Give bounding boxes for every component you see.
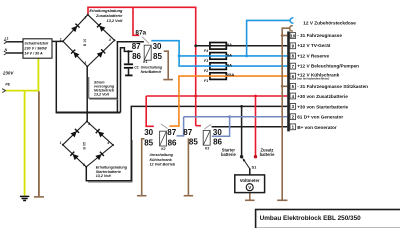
label pin10 (297, 33, 342, 38)
svg-text:K1: K1 (143, 60, 147, 64)
junction socket blue riser (245, 55, 248, 58)
junction C1 tap (127, 50, 130, 53)
capacitor C1 label (134, 65, 163, 74)
svg-text:61 D+ von Generator: 61 D+ von Generator (297, 115, 343, 120)
diode D2a (71, 129, 79, 137)
title box (256, 210, 400, 229)
svg-text:F4: F4 (204, 49, 208, 53)
svg-text:4: 4 (106, 141, 109, 145)
label pin7 (297, 64, 359, 69)
wire blue socket riser (247, 18, 294, 56)
node S1 starter terminal (240, 155, 243, 158)
svg-text:1: 1 (60, 37, 62, 41)
label Starter batterie (221, 148, 237, 157)
fuse F3 (210, 53, 226, 60)
svg-text:30: 30 (213, 128, 222, 137)
node 3 label lower (83, 163, 85, 167)
terminal L1 label (5, 37, 9, 41)
label 12V Zubehoersteckdose (303, 21, 356, 26)
ground earth symbol (20, 196, 29, 200)
connector pin 7 (290, 63, 296, 69)
wire bridge stem (86, 66, 88, 121)
svg-text:2: 2 (83, 16, 86, 20)
svg-text:86: 86 (213, 137, 222, 146)
svg-text:F1: F1 (204, 79, 208, 83)
label pin4 (297, 94, 348, 99)
svg-text:PE: PE (5, 83, 10, 87)
svg-text:Umschaltung: Umschaltung (141, 65, 163, 69)
svg-text:+30 von Zusatzbatterie: +30 von Zusatzbatterie (297, 94, 348, 99)
svg-text:12 V Zubehörsteckdose: 12 V Zubehörsteckdose (303, 21, 356, 26)
wire PE yellow (2, 58, 38, 195)
svg-text:S1: S1 (252, 164, 258, 169)
wire brown K3 85 ground (184, 138, 193, 195)
junction red S1 branch (254, 95, 257, 98)
diode D1a (71, 24, 79, 32)
svg-text:+30 von Starterbatterie: +30 von Starterbatterie (297, 104, 348, 109)
wire N input (4, 51, 23, 55)
wire pin1 row B+ generator (212, 126, 288, 128)
node 2 label (83, 16, 86, 20)
wire voltmeter ground (245, 193, 255, 201)
label pin9 (297, 43, 331, 48)
svg-text:14 V / 30 A: 14 V / 30 A (24, 51, 43, 55)
diode D2d (95, 152, 103, 160)
fuse F2 label (204, 63, 232, 74)
connector pin 5 (290, 83, 296, 89)
svg-text:Schaltnetzteil: Schaltnetzteil (24, 41, 49, 45)
wire D+ row pin2 (177, 117, 288, 137)
label pin3 (297, 104, 348, 109)
wire brown socket ground (277, 26, 293, 201)
connector pin 8 (290, 53, 296, 59)
svg-text:F2: F2 (204, 69, 208, 73)
connector pin 1 (290, 124, 296, 130)
svg-text:- 31 Fahrzeugmasse Stitzkasten: - 31 Fahrzeugmasse Stitzkasten (297, 84, 368, 89)
wire blue K1 30 to fuses (151, 41, 287, 66)
connector block bar (287, 31, 290, 131)
node S1 zusatz terminal (254, 155, 257, 158)
svg-text:8A: 8A (227, 63, 232, 68)
svg-text:230V: 230V (2, 71, 14, 76)
bridge D2 type label (82, 142, 86, 149)
label Zusatz batterie (260, 148, 276, 157)
svg-text:K3: K3 (205, 147, 209, 151)
wire S1 starter drop (241, 106, 243, 155)
svg-text:30: 30 (144, 128, 153, 137)
diode D1d (97, 49, 105, 57)
voltmeter box (235, 175, 265, 193)
wire red pin4 row Zusatzbatterie (146, 95, 287, 97)
svg-text:4: 4 (108, 38, 111, 42)
svg-text:+12 V Beleuchtung/Pumpen: +12 V Beleuchtung/Pumpen (297, 64, 359, 69)
svg-text:85: 85 (153, 52, 162, 61)
svg-text:Umbau Elektroblock EBL 250/350: Umbau Elektroblock EBL 250/350 (260, 215, 362, 222)
wire K1 87 feed (117, 42, 143, 113)
svg-text:B 10: B 10 (83, 39, 87, 46)
svg-text:85: 85 (189, 137, 198, 146)
connector pin 4 (290, 93, 296, 99)
svg-text:3: 3 (83, 163, 85, 167)
wire red main charge line (88, 7, 201, 125)
svg-text:1: 1 (60, 141, 62, 145)
wire supply bus (56, 112, 121, 114)
diode D1c (71, 50, 79, 58)
junction bus bridge stem (86, 111, 89, 114)
svg-text:12 Volt Betrieb: 12 Volt Betrieb (150, 163, 176, 167)
svg-text:87: 87 (167, 128, 176, 137)
label pin5 (297, 84, 368, 89)
wire pin3 row starter battery (86, 106, 287, 182)
wire brown K1 85 ground (163, 51, 173, 79)
diode D2b (96, 129, 104, 137)
svg-text:+12 V Reserve: +12 V Reserve (297, 53, 329, 58)
wire red S1 drop (255, 96, 257, 156)
svg-text:3: 3 (84, 61, 86, 65)
svg-text:86: 86 (168, 139, 177, 148)
svg-text:85: 85 (144, 139, 153, 148)
svg-text:Kühlschrank: Kühlschrank (150, 158, 173, 162)
connector pin 6 (290, 73, 296, 79)
junction red row crossing (194, 95, 197, 98)
node 1 label lower (60, 141, 62, 145)
wire L1 input (4, 40, 23, 44)
fuse F3 label (204, 52, 232, 63)
diode D1b (97, 23, 105, 31)
rectifier bridge D1 outline (62, 14, 116, 68)
wire brown K2 85 ground (137, 139, 146, 196)
fuse F1 label (204, 72, 234, 83)
wire orange F1 row (169, 76, 287, 126)
label box Strom versorgung Netzbetrieb (89, 77, 119, 100)
connector pin 2 (290, 114, 296, 120)
wire PSU to bridge node 1 (52, 40, 63, 42)
svg-text:13,2 Volt: 13,2 Volt (96, 174, 112, 178)
svg-text:K2: K2 (161, 147, 165, 151)
svg-text:batterie: batterie (221, 152, 237, 157)
230V label (2, 71, 14, 76)
capacitor C1 (124, 51, 133, 75)
wire red K2 30 drop (146, 96, 154, 126)
svg-text:V: V (248, 185, 251, 190)
node 2 label lower (87, 122, 90, 126)
svg-text:C1: C1 (134, 65, 139, 69)
wire fuse row F4 pin9 (196, 45, 288, 47)
junction F3 blue branch (178, 55, 181, 58)
wire K1 86 feed (121, 48, 133, 113)
switch S1 (243, 158, 250, 175)
svg-text:- 31 Fahrzeugmasse: - 31 Fahrzeugmasse (297, 33, 342, 38)
junction D+ K3 coil branch (228, 115, 231, 118)
bridge D1 type label (83, 39, 87, 46)
svg-text:+12 V TV-Gerät: +12 V TV-Gerät (297, 43, 331, 48)
power supply box (23, 39, 52, 58)
fuse F4 label (204, 42, 232, 53)
K2 function label (150, 153, 176, 166)
svg-text:Umschaltung: Umschaltung (150, 153, 174, 157)
svg-text:10: 10 (290, 33, 295, 38)
svg-text:8A: 8A (227, 42, 232, 47)
svg-text:87: 87 (183, 128, 192, 137)
svg-text:87: 87 (132, 42, 141, 51)
label Erhaltungsladung Starterbatterie (96, 166, 128, 178)
relay K1 (132, 30, 163, 65)
connector pin 3 (290, 104, 296, 110)
svg-text:30: 30 (153, 42, 162, 51)
connector pin 10 (290, 33, 296, 39)
svg-text:batterie: batterie (260, 152, 276, 157)
junction F4 red feed (194, 44, 197, 47)
node 3 label (84, 61, 86, 65)
svg-text:Voltmeter: Voltmeter (240, 178, 260, 183)
rectifier bridge D2 outline (62, 120, 114, 167)
diode D2c (70, 152, 78, 160)
svg-text:230 V / 360W: 230 V / 360W (23, 46, 47, 50)
node 4 label (108, 38, 111, 42)
fuse F4 (210, 43, 226, 50)
label S1 (252, 164, 258, 169)
svg-text:L1: L1 (5, 37, 9, 41)
junction starter S1 branch (240, 105, 243, 108)
svg-text:B 05: B 05 (82, 142, 86, 149)
fuse F1 (210, 73, 226, 80)
wire PSU plus drop (55, 41, 57, 112)
terminal N label (5, 48, 8, 52)
svg-text:2: 2 (87, 122, 90, 126)
node 4 label lower (106, 141, 109, 145)
label pin8 (297, 53, 329, 58)
junction ground pin5 (281, 85, 284, 88)
svg-text:86: 86 (132, 52, 141, 61)
svg-text:13,2 Volt: 13,2 Volt (107, 18, 124, 23)
svg-text:87a: 87a (135, 30, 146, 37)
svg-text:25A: 25A (227, 72, 234, 77)
wire blue F3 row (179, 55, 287, 57)
label pin1 (297, 125, 337, 130)
wire chassis brown left (34, 91, 44, 197)
label pin2 (297, 115, 343, 120)
relay K3 (183, 124, 222, 150)
svg-text:8A: 8A (227, 52, 232, 57)
svg-text:F3: F3 (204, 59, 208, 63)
terminal PE label (5, 83, 10, 87)
svg-text:B+ von Generator: B+ von Generator (297, 125, 337, 130)
node 1 label (60, 37, 62, 41)
fuse F2 (210, 63, 226, 70)
junction ground pin10 (281, 34, 284, 37)
svg-text:(nur bei laufendem Motor): (nur bei laufendem Motor) (297, 77, 329, 81)
svg-text:Netz/Batterie: Netz/Batterie (141, 70, 162, 74)
wire red K1 87a branch (133, 7, 139, 35)
relay K2 (144, 124, 177, 151)
label Erhaltungsladung Zusatzbatterie (89, 8, 123, 23)
connector pin 9 (290, 43, 296, 49)
svg-text:13,2 Volt: 13,2 Volt (94, 93, 110, 97)
label pin6 (297, 72, 339, 80)
